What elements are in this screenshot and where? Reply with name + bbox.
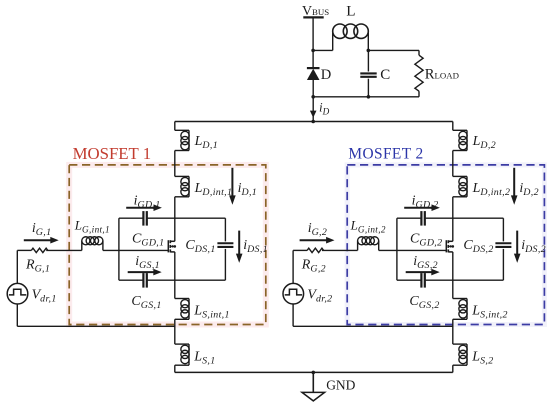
current arrow iD2 xyxy=(511,168,518,205)
resistor RG1 xyxy=(31,248,48,252)
source Vdr1 xyxy=(7,250,28,326)
inductor LSint1 xyxy=(175,299,189,320)
capacitor CDS1 xyxy=(217,243,233,247)
box MOSFET 1 outline xyxy=(69,165,266,325)
diode D xyxy=(307,68,320,80)
node diode anode junction xyxy=(311,95,315,99)
wire source ground rail xyxy=(175,371,453,373)
svg-text:VBUS: VBUS xyxy=(302,4,329,19)
wire LS1 to ground rail xyxy=(174,365,176,372)
svg-text:C: C xyxy=(380,67,390,83)
wire CGS2 branch left xyxy=(397,279,422,281)
wire CGD2 branch left xyxy=(397,217,422,219)
wire bus to LD1 xyxy=(174,122,176,131)
wire RG1 to LGint1 xyxy=(46,249,82,251)
inductor LDint1 xyxy=(175,176,189,196)
wire drain bus rail xyxy=(175,121,453,123)
svg-text:MOSFET 1: MOSFET 1 xyxy=(73,144,152,163)
wire VBUS down to diode xyxy=(312,17,314,68)
wire center down with iD arrow xyxy=(310,97,317,122)
ground GND symbol xyxy=(302,372,325,401)
wire LGint1 to gate xyxy=(103,249,168,251)
wire CDS1 branch top xyxy=(224,218,226,241)
net VBUS terminal bar xyxy=(303,16,323,18)
wire gate node vertical 1 xyxy=(118,218,120,280)
node bus-left junction xyxy=(311,49,315,53)
node bus-right junction xyxy=(367,49,371,53)
inductor LGint2 xyxy=(358,237,379,251)
inductor LD1 xyxy=(175,130,189,150)
current arrow iGD1 xyxy=(126,204,162,211)
wire CGD1 branch left xyxy=(119,217,143,219)
source Vdr2 xyxy=(283,250,304,326)
wire LGint2 to gate xyxy=(379,249,447,251)
inductor LS1 xyxy=(175,344,189,365)
svg-text:GND: GND xyxy=(326,377,355,392)
inductor LS2 xyxy=(453,344,467,365)
wire CGD2 branch right xyxy=(425,217,504,219)
wire source lead 2 xyxy=(452,252,454,299)
capacitor C xyxy=(360,50,376,96)
current arrow iGS2 xyxy=(406,269,440,276)
wire diode anode down xyxy=(312,80,314,97)
wire Vdr2 return xyxy=(293,325,453,327)
capacitor CGD1 xyxy=(143,211,146,226)
wire CGD1 branch right xyxy=(147,217,226,219)
capacitor CGS1 xyxy=(143,273,146,288)
wire L to RLOAD top xyxy=(368,49,419,51)
transistor M2 xyxy=(446,240,454,252)
wire CGS1 branch left xyxy=(119,279,143,281)
node GND junction xyxy=(312,371,316,375)
inductor LDint2 xyxy=(453,176,467,196)
svg-text:D: D xyxy=(321,67,332,83)
transistor M1 xyxy=(168,240,176,252)
wire gate node vertical 2 xyxy=(396,218,398,280)
svg-text:L: L xyxy=(346,3,355,20)
wire LS2 to ground rail xyxy=(452,365,454,372)
wire Vdr1 return xyxy=(17,325,175,327)
resistor RLOAD xyxy=(415,50,423,96)
wire CGS2 branch right xyxy=(425,279,504,281)
wire CDS2 branch top xyxy=(502,218,504,241)
wire Vdr2 top to RG2 xyxy=(293,249,307,251)
resistor RG2 xyxy=(307,248,323,252)
wire source lead 1 xyxy=(174,252,176,299)
current arrow iG1 xyxy=(24,237,59,244)
current arrow iDS2 xyxy=(514,231,521,263)
wire LD2 to LDint2 xyxy=(452,151,454,177)
inductor LSint2 xyxy=(453,299,467,320)
inductor LGint1 xyxy=(82,237,103,251)
wire LD1 to LDint1 xyxy=(174,151,176,177)
capacitor CGS2 xyxy=(421,273,424,288)
wire RLOAD bottom to node xyxy=(313,96,419,98)
current arrow iGD2 xyxy=(404,204,440,211)
svg-text:MOSFET 2: MOSFET 2 xyxy=(348,146,423,163)
wire CGS1 branch right xyxy=(147,279,226,281)
current arrow iD1 xyxy=(229,168,236,205)
inductor L xyxy=(313,24,368,50)
current arrow iDS1 xyxy=(236,231,243,263)
current arrow iGS1 xyxy=(128,269,162,276)
node drain bus junction xyxy=(311,120,315,124)
box MOSFET 2 outline xyxy=(347,165,544,325)
wire CDS2 branch bottom xyxy=(502,249,504,280)
wire LDint1 to drain xyxy=(174,197,176,242)
wire LSint1 to LS1 xyxy=(174,319,176,344)
wire Vdr1 top to RG1 xyxy=(17,249,31,251)
wire LDint2 to drain xyxy=(452,197,454,242)
node C bottom junction xyxy=(367,95,371,99)
wire RG2 to LGint2 xyxy=(322,249,358,251)
wire LSint2 to LS2 xyxy=(452,319,454,344)
wire bus to LD2 xyxy=(452,122,454,131)
current arrow iG2 xyxy=(300,237,335,244)
wire CDS1 branch bottom xyxy=(224,249,226,280)
capacitor CDS2 xyxy=(495,243,511,247)
capacitor CGD2 xyxy=(421,211,424,226)
inductor LD2 xyxy=(453,130,467,150)
